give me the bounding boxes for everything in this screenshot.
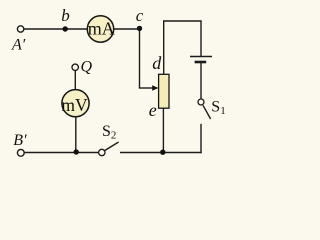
svg-text:B′: B′ [13, 132, 27, 149]
svg-text:mV: mV [61, 95, 88, 115]
svg-text:mA: mA [88, 19, 115, 39]
svg-text:c: c [136, 6, 144, 25]
svg-text:d: d [152, 53, 162, 73]
svg-text:e: e [149, 100, 157, 120]
svg-text:Q: Q [81, 58, 93, 75]
svg-text:b: b [61, 6, 69, 25]
svg-text:A′: A′ [11, 37, 26, 54]
